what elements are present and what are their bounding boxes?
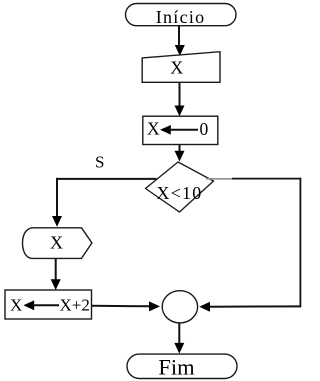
arrowhead into assignment X=0 [175, 106, 185, 117]
process rectangle X<-X+2 [5, 290, 92, 319]
svg-text:X+2: X+2 [60, 296, 90, 315]
display shape X [23, 228, 92, 259]
wire from connector to Fim [178, 323, 180, 344]
terminator Fim [127, 354, 237, 380]
wire N-branch from diamond right (light segment) [206, 178, 232, 180]
svg-text:Fim: Fim [158, 355, 195, 380]
arrowhead into Fim [174, 343, 184, 354]
svg-text:S: S [95, 152, 104, 171]
svg-text:X: X [170, 57, 183, 77]
wire S-branch vertical down [56, 178, 58, 218]
terminator Inicio [126, 4, 237, 28]
arrowhead into display [52, 216, 62, 227]
process rectangle X<-0 [143, 116, 218, 144]
svg-text:X: X [50, 232, 63, 252]
wire from display to X=X+2 [55, 258, 57, 281]
wire S-branch horizontal from diamond to left [56, 178, 157, 180]
arrowhead into decision [175, 151, 185, 162]
svg-text:X: X [10, 296, 22, 315]
arrowhead into connector from left [149, 301, 160, 311]
card X (manual input) [142, 52, 220, 83]
wire from card to assignment X=0 [179, 82, 181, 108]
svg-text:0: 0 [200, 119, 209, 139]
wire N-branch vertical right [299, 178, 301, 307]
wire from X=X+2 to connector circle [92, 305, 151, 308]
arrowhead into connector from right [199, 302, 210, 312]
wire from X=0 to decision [179, 145, 181, 154]
svg-text:Início: Início [156, 7, 206, 27]
arrowhead into X=X+2 [51, 279, 61, 290]
svg-text:X: X [147, 119, 160, 139]
decision diamond X<10 [146, 162, 214, 212]
arrowhead into card [175, 45, 185, 56]
wire N-branch horizontal top right [232, 178, 301, 180]
connector circle [162, 291, 197, 323]
wire from Inicio to card [178, 26, 180, 47]
svg-text:X<10: X<10 [157, 183, 203, 203]
wire N-branch horizontal bottom [209, 305, 301, 307]
